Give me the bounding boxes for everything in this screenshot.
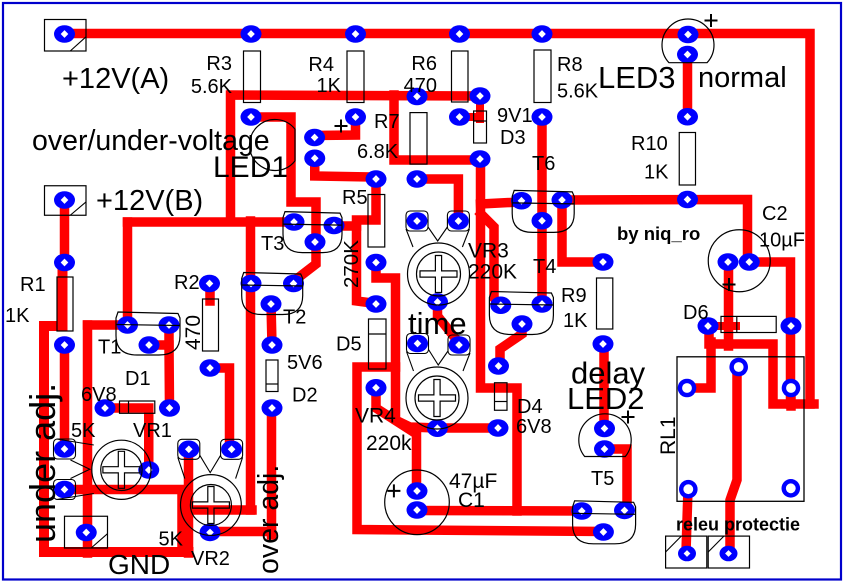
svg-text:R8: R8 — [557, 54, 583, 76]
svg-text:VR2: VR2 — [191, 548, 230, 570]
svg-text:T5: T5 — [591, 468, 614, 490]
svg-text:5V6: 5V6 — [287, 352, 323, 374]
svg-text:under adj.: under adj. — [22, 383, 63, 543]
svg-text:D4: D4 — [517, 396, 543, 418]
svg-text:1K: 1K — [563, 310, 588, 332]
svg-text:D2: D2 — [292, 385, 318, 407]
svg-text:1K: 1K — [317, 75, 342, 97]
svg-text:+12V(A): +12V(A) — [62, 63, 169, 95]
svg-text:D1: D1 — [125, 368, 151, 390]
svg-text:5.6K: 5.6K — [191, 76, 233, 98]
svg-text:VR4: VR4 — [355, 405, 396, 428]
svg-text:5K: 5K — [159, 529, 184, 551]
svg-text:D5: D5 — [336, 334, 362, 356]
svg-text:D3: D3 — [500, 127, 526, 149]
svg-text:6V8: 6V8 — [81, 384, 117, 406]
svg-text:C2: C2 — [762, 203, 788, 225]
svg-text:T3: T3 — [261, 233, 284, 255]
svg-text:470: 470 — [404, 75, 437, 97]
svg-text:R7: R7 — [374, 111, 400, 133]
svg-text:5K: 5K — [71, 420, 96, 442]
svg-text:VR1: VR1 — [133, 420, 172, 442]
svg-text:GND: GND — [108, 549, 170, 580]
svg-text:LED1: LED1 — [213, 151, 288, 184]
svg-text:470: 470 — [182, 315, 205, 350]
svg-text:D6: D6 — [683, 302, 709, 324]
svg-text:T6: T6 — [532, 153, 555, 175]
svg-text:220k: 220k — [366, 432, 412, 455]
svg-text:6.8K: 6.8K — [357, 141, 399, 163]
svg-text:normal: normal — [698, 62, 787, 94]
svg-text:T1: T1 — [98, 337, 121, 359]
svg-text:RL1: RL1 — [657, 416, 680, 455]
svg-text:5.6K: 5.6K — [557, 81, 599, 103]
svg-text:R3: R3 — [206, 53, 232, 75]
svg-text:270K: 270K — [340, 240, 363, 288]
svg-text:R2: R2 — [174, 272, 200, 294]
svg-text:by niq_ro: by niq_ro — [617, 223, 700, 244]
svg-text:over adj.: over adj. — [253, 465, 285, 574]
svg-text:R10: R10 — [631, 133, 668, 155]
svg-text:LED2: LED2 — [567, 381, 645, 416]
svg-text:6V8: 6V8 — [516, 416, 552, 438]
svg-text:220K: 220K — [468, 261, 517, 284]
svg-text:VR3: VR3 — [468, 240, 509, 263]
svg-text:+12V(B): +12V(B) — [96, 185, 203, 217]
svg-text:R1: R1 — [20, 274, 46, 296]
svg-text:T4: T4 — [533, 256, 556, 278]
svg-text:C1: C1 — [458, 489, 485, 512]
svg-text:time: time — [408, 306, 467, 341]
svg-text:1K: 1K — [5, 305, 30, 327]
svg-text:releu protectie: releu protectie — [676, 515, 800, 535]
svg-text:R5: R5 — [342, 187, 368, 209]
svg-text:10µF: 10µF — [759, 230, 805, 252]
svg-text:T2: T2 — [283, 307, 306, 329]
svg-text:LED3: LED3 — [598, 60, 676, 95]
svg-text:1K: 1K — [644, 162, 669, 184]
svg-text:R6: R6 — [411, 53, 437, 75]
svg-text:9V1: 9V1 — [497, 105, 533, 127]
svg-text:R9: R9 — [561, 285, 587, 307]
svg-text:R4: R4 — [308, 54, 334, 76]
